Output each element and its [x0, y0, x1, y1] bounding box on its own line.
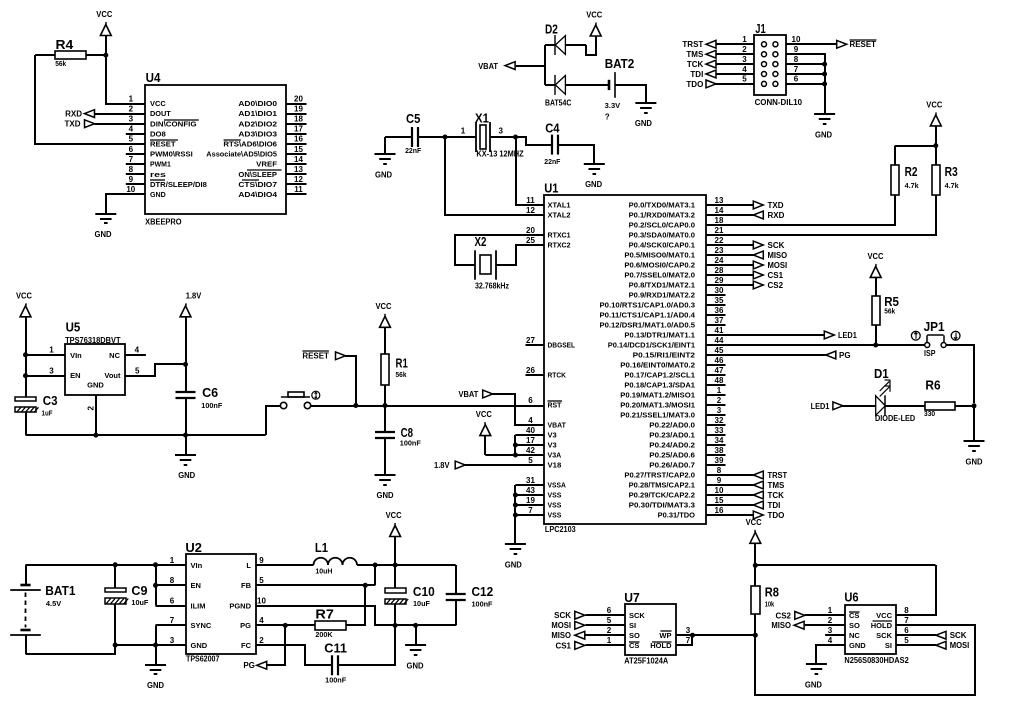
ground — [405, 645, 426, 670]
resistor R7 — [315, 607, 346, 639]
svg-text:TRST: TRST — [768, 471, 788, 480]
wire — [345, 356, 356, 406]
wire — [875, 325, 877, 345]
svg-text:P0.29/TCK/CAP2.2: P0.29/TCK/CAP2.2 — [629, 493, 696, 500]
svg-text:VCC: VCC — [476, 410, 492, 419]
svg-text:TDI: TDI — [768, 501, 781, 510]
svg-text:45: 45 — [715, 346, 724, 355]
signal TCK (U1) — [753, 491, 784, 500]
svg-text:WP: WP — [659, 631, 671, 640]
svg-text:C12: C12 — [472, 584, 494, 599]
svg-text:C9: C9 — [131, 583, 147, 598]
svg-text:GND: GND — [87, 380, 104, 389]
wire — [105, 36, 107, 56]
svg-text:U6: U6 — [844, 590, 858, 605]
svg-text:VREF: VREF — [256, 162, 278, 169]
svg-text:GND: GND — [966, 457, 983, 466]
svg-text:32: 32 — [715, 416, 724, 425]
svg-text:1: 1 — [607, 636, 612, 645]
svg-text:GND: GND — [635, 119, 652, 128]
svg-text:P0.27/TRST/CAP2.0: P0.27/TRST/CAP2.0 — [624, 473, 695, 480]
resistor R5 — [872, 294, 899, 325]
power flag VCC (U2 out) — [386, 511, 402, 537]
wire — [185, 435, 187, 455]
svg-text:5: 5 — [259, 576, 264, 585]
junction — [393, 563, 398, 568]
svg-text:4: 4 — [129, 125, 134, 134]
wire — [706, 334, 825, 336]
svg-text:L: L — [246, 561, 251, 570]
svg-text:EN: EN — [70, 371, 80, 380]
wire — [394, 537, 396, 566]
svg-text:P0.6/MOSI0/CAP0.2: P0.6/MOSI0/CAP0.2 — [624, 263, 695, 270]
svg-text:EN: EN — [191, 581, 201, 590]
wire — [706, 214, 754, 216]
svg-text:56k: 56k — [396, 372, 407, 379]
svg-text:X2: X2 — [475, 234, 487, 249]
svg-text:SCK: SCK — [629, 611, 645, 620]
svg-text:R3: R3 — [945, 164, 958, 179]
svg-text:CS2: CS2 — [775, 611, 791, 620]
svg-text:VIn: VIn — [70, 351, 82, 360]
svg-text:FC: FC — [241, 641, 252, 650]
svg-text:9: 9 — [794, 45, 799, 54]
signal TRST (J1 pin 1) — [682, 40, 716, 49]
svg-text:9: 9 — [129, 175, 134, 184]
svg-text:DIN\CONFIG: DIN\CONFIG — [150, 121, 197, 128]
svg-text:U4: U4 — [146, 70, 161, 85]
svg-text:48: 48 — [715, 376, 724, 385]
wire — [842, 405, 876, 407]
switching regulator U2 TPS62007 — [170, 540, 267, 663]
svg-text:AD1\DIO1: AD1\DIO1 — [238, 111, 277, 118]
svg-text:18: 18 — [715, 216, 724, 225]
svg-text:C5: C5 — [406, 111, 420, 126]
svg-text:6: 6 — [528, 396, 533, 405]
pin number — [794, 55, 799, 64]
svg-text:SCK: SCK — [554, 611, 571, 620]
svg-text:20: 20 — [526, 226, 535, 235]
wire — [515, 434, 543, 436]
wire — [754, 565, 756, 585]
wire (VCC rail) — [755, 564, 935, 566]
wire — [786, 83, 825, 85]
signal PG (U1) — [826, 351, 851, 360]
wire — [415, 625, 417, 645]
signal TDO (J1 pin 5) — [686, 80, 716, 89]
wire — [35, 55, 145, 144]
svg-text:AD4\DIO4: AD4\DIO4 — [238, 192, 277, 199]
wire (HOLD loop) — [755, 625, 975, 695]
junction — [822, 62, 827, 67]
wire — [565, 84, 609, 86]
wire — [706, 204, 754, 206]
svg-text:10uH: 10uH — [315, 569, 332, 576]
pin number — [742, 75, 747, 84]
svg-text:TPS62007: TPS62007 — [186, 654, 220, 663]
svg-text:8: 8 — [129, 165, 134, 174]
svg-text:DOUT: DOUT — [150, 111, 172, 118]
svg-text:RTXC2: RTXC2 — [548, 243, 571, 250]
svg-text:U7: U7 — [624, 590, 640, 605]
resistor R2 — [891, 164, 919, 195]
svg-text:10k: 10k — [765, 601, 775, 608]
svg-text:TDO: TDO — [768, 511, 785, 520]
svg-text:17: 17 — [526, 436, 535, 445]
svg-text:1uF: 1uF — [42, 410, 54, 417]
svg-text:8: 8 — [170, 576, 175, 585]
ground — [175, 455, 196, 480]
capacitor C3 — [15, 393, 58, 417]
svg-text:3: 3 — [717, 406, 722, 415]
svg-text:1: 1 — [742, 35, 747, 44]
wire (bottom rail) — [26, 645, 115, 654]
signal TDI (J1 pin 4) — [690, 70, 716, 79]
svg-text:GND: GND — [585, 180, 602, 189]
junction — [513, 135, 518, 140]
svg-text:VSS: VSS — [548, 513, 562, 520]
wire — [676, 635, 692, 645]
svg-text:PWM0\RSSI: PWM0\RSSI — [150, 152, 193, 159]
svg-text:XTAL1: XTAL1 — [548, 203, 571, 210]
ground — [375, 475, 396, 500]
svg-text:4: 4 — [828, 636, 833, 645]
svg-text:AD2\DIO2: AD2\DIO2 — [238, 121, 277, 128]
svg-text:4.5V: 4.5V — [46, 601, 62, 608]
svg-text:5: 5 — [742, 75, 747, 84]
svg-text:VCC: VCC — [868, 252, 884, 261]
signal MISO (U7) — [551, 631, 584, 640]
svg-text:17: 17 — [294, 125, 303, 134]
wire — [586, 644, 626, 646]
svg-text:3: 3 — [129, 115, 134, 124]
svg-text:21: 21 — [715, 226, 724, 235]
wire — [185, 398, 187, 435]
junction — [23, 373, 28, 378]
svg-text:P0.3/SDA0/MAT0.0: P0.3/SDA0/MAT0.0 — [629, 233, 696, 240]
svg-text:D2: D2 — [545, 22, 558, 37]
svg-text:SCK: SCK — [768, 241, 785, 250]
wire — [754, 614, 756, 635]
wire — [455, 565, 457, 594]
svg-text:GND: GND — [178, 471, 195, 480]
svg-text:4: 4 — [135, 345, 140, 354]
svg-text:LED1: LED1 — [838, 331, 857, 340]
wire — [558, 145, 594, 164]
wire — [156, 624, 187, 626]
svg-text:4.7k: 4.7k — [945, 183, 959, 190]
wire — [455, 600, 457, 626]
svg-text:8: 8 — [904, 606, 909, 615]
svg-text:6: 6 — [170, 596, 175, 605]
svg-text:41: 41 — [715, 326, 724, 335]
wire — [715, 73, 754, 75]
wire — [875, 277, 877, 295]
junction — [513, 493, 518, 498]
svg-text:RESET: RESET — [850, 40, 877, 49]
capacitor C6 — [176, 385, 224, 410]
junction — [153, 562, 158, 567]
svg-text:7: 7 — [129, 155, 134, 164]
wire — [805, 624, 845, 626]
svg-text:NC: NC — [849, 631, 860, 640]
svg-text:RST: RST — [548, 403, 563, 410]
diode D2 upper half — [555, 35, 565, 55]
svg-text:VSS: VSS — [548, 493, 562, 500]
svg-text:V18: V18 — [548, 463, 562, 470]
pin number — [742, 55, 747, 64]
svg-text:TPS76318DBVT: TPS76318DBVT — [65, 336, 120, 345]
wire — [615, 85, 646, 103]
svg-text:VCC: VCC — [586, 11, 602, 20]
wire — [338, 625, 395, 665]
wire (RTXC1) — [455, 235, 544, 265]
svg-text:PG: PG — [839, 351, 851, 360]
pin number — [794, 45, 799, 54]
svg-text:P0.1/RXD0/MAT3.2: P0.1/RXD0/MAT3.2 — [629, 213, 696, 220]
resistor R6 — [924, 378, 955, 419]
svg-text:14: 14 — [294, 155, 303, 164]
svg-text:4: 4 — [259, 616, 264, 625]
svg-text:15: 15 — [715, 496, 724, 505]
svg-text:38: 38 — [715, 446, 724, 455]
wire — [394, 604, 396, 625]
svg-text:VBAT: VBAT — [548, 423, 567, 430]
svg-text:RESET: RESET — [302, 351, 329, 360]
svg-text:P0.25/AD0.6: P0.25/AD0.6 — [649, 453, 695, 460]
wire — [715, 53, 754, 55]
wire — [805, 614, 845, 616]
wire (SYNC tie) — [155, 625, 157, 645]
svg-text:8: 8 — [717, 466, 722, 475]
capacitor C4 — [544, 121, 561, 166]
pin number — [742, 35, 747, 44]
signal TCK (J1 pin 3) — [687, 60, 716, 69]
svg-text:19: 19 — [294, 104, 303, 113]
svg-text:P0.5/MISO0/MAT0.1: P0.5/MISO0/MAT0.1 — [624, 253, 695, 260]
wire — [156, 605, 187, 607]
svg-text:P0.20/MAT1.3/MOSI1: P0.20/MAT1.3/MOSI1 — [620, 403, 695, 410]
svg-text:10: 10 — [126, 185, 135, 194]
svg-text:TXD: TXD — [65, 120, 81, 129]
wire — [490, 136, 516, 138]
svg-text:P0.15/RI1/EINT2: P0.15/RI1/EINT2 — [633, 353, 695, 360]
wire — [35, 54, 55, 56]
svg-text:R8: R8 — [765, 584, 779, 599]
svg-text:P0.16/EINT0/MAT0.2: P0.16/EINT0/MAT0.2 — [620, 363, 695, 370]
wire — [155, 645, 157, 665]
svg-text:7: 7 — [904, 616, 909, 625]
svg-text:100nF: 100nF — [400, 441, 422, 448]
wire — [106, 55, 145, 104]
wire — [394, 565, 396, 588]
wire — [706, 494, 754, 496]
svg-text:5: 5 — [129, 135, 134, 144]
wire — [492, 394, 544, 425]
svg-text:RTXC1: RTXC1 — [548, 233, 571, 240]
wire (Vout rail) — [357, 564, 456, 566]
junction — [933, 143, 938, 148]
svg-text:D1: D1 — [874, 366, 889, 381]
resistor R4 — [55, 37, 86, 68]
wire — [516, 65, 545, 67]
svg-text:Vout: Vout — [104, 371, 121, 380]
svg-text:39: 39 — [715, 456, 724, 465]
svg-text:6: 6 — [607, 606, 612, 615]
svg-text:16: 16 — [294, 135, 303, 144]
svg-text:TCK: TCK — [687, 60, 704, 69]
pin 3 stub (NC) — [825, 634, 845, 636]
wire (RTXC2) — [496, 245, 544, 265]
svg-text:CONN-DIL10: CONN-DIL10 — [755, 98, 803, 107]
svg-text:5: 5 — [135, 367, 140, 376]
svg-text:PWM1: PWM1 — [150, 162, 171, 169]
svg-text:PGND: PGND — [229, 601, 251, 610]
wire — [384, 137, 386, 154]
pin number — [49, 345, 54, 354]
svg-text:U1: U1 — [544, 181, 558, 196]
svg-text:23: 23 — [715, 246, 724, 255]
svg-text:MISO: MISO — [551, 631, 571, 640]
junction — [513, 513, 518, 518]
svg-text:SO: SO — [629, 631, 640, 640]
pin 3 label — [498, 127, 503, 136]
signal VBAT — [478, 62, 515, 71]
pin number — [135, 367, 140, 376]
svg-text:6: 6 — [794, 75, 799, 84]
pin number — [742, 45, 747, 54]
connector J1 CONN-DIL10 — [754, 21, 803, 107]
power flag VCC (XBee pull-up) — [96, 10, 112, 36]
power flag VCC (I2C pull-ups) — [926, 100, 942, 126]
wire — [706, 244, 754, 246]
capacitor C10 — [385, 584, 435, 608]
crystal X2 — [475, 234, 510, 290]
signal TXD — [65, 120, 95, 129]
junction — [753, 563, 758, 568]
svg-text:10: 10 — [257, 596, 266, 605]
svg-text:R2: R2 — [905, 164, 918, 179]
wire (SCL net) — [706, 195, 895, 225]
svg-text:7: 7 — [686, 636, 691, 645]
signal TMS (J1 pin 2) — [686, 50, 716, 59]
wire — [106, 194, 145, 214]
wire — [515, 454, 543, 456]
svg-text:SO: SO — [849, 621, 860, 630]
wire — [384, 438, 386, 475]
svg-text:6: 6 — [129, 145, 134, 154]
wire — [384, 406, 386, 433]
svg-text:3: 3 — [170, 636, 175, 645]
svg-text:31: 31 — [526, 476, 535, 485]
svg-text:P0.23/AD0.1: P0.23/AD0.1 — [649, 433, 695, 440]
svg-text:9: 9 — [259, 556, 264, 565]
svg-text:U2: U2 — [185, 540, 202, 555]
diode D2 lower half — [555, 75, 565, 95]
svg-text:5: 5 — [904, 636, 909, 645]
svg-text:MOSI: MOSI — [768, 261, 788, 270]
svg-text:C3: C3 — [43, 393, 58, 408]
wire — [515, 484, 543, 486]
svg-text:DTR/SLEEP/DI8: DTR/SLEEP/DI8 — [150, 182, 207, 189]
wire — [894, 146, 896, 166]
svg-text:34: 34 — [715, 436, 724, 445]
svg-text:2: 2 — [717, 396, 722, 405]
svg-text:1: 1 — [828, 606, 833, 615]
capacitor C11 — [324, 640, 347, 684]
wire — [955, 405, 974, 407]
svg-text:TRST: TRST — [682, 40, 703, 49]
svg-text:8: 8 — [794, 55, 799, 64]
svg-text:VCC: VCC — [746, 518, 762, 527]
regulator U5 TPS76318DBVT — [65, 320, 125, 396]
ground — [635, 103, 657, 128]
svg-text:P0.8/TXD1/MAT2.1: P0.8/TXD1/MAT2.1 — [629, 283, 696, 290]
svg-text:1.8V: 1.8V — [186, 291, 202, 300]
pin 1 label — [461, 127, 466, 136]
svg-text:P0.24/AD0.2: P0.24/AD0.2 — [649, 443, 695, 450]
svg-text:10: 10 — [792, 35, 801, 44]
svg-text:SCK: SCK — [950, 631, 967, 640]
wire (SDA net) — [706, 195, 936, 235]
svg-text:P0.13/DTR1/MAT1.1: P0.13/DTR1/MAT1.1 — [624, 333, 695, 340]
svg-text:XTAL2: XTAL2 — [548, 213, 571, 220]
signal TRST (U1) — [753, 471, 787, 480]
svg-text:VCC: VCC — [16, 291, 32, 300]
svg-text:VBAT: VBAT — [478, 62, 498, 71]
wire — [896, 634, 936, 636]
svg-text:33: 33 — [715, 426, 724, 435]
pin number — [49, 367, 54, 376]
pin number — [794, 75, 799, 84]
junction — [393, 623, 398, 628]
power flag 1.8V — [180, 291, 202, 317]
wire — [565, 44, 586, 46]
wire — [514, 485, 516, 544]
wire (Vout) — [125, 364, 186, 376]
svg-text:MISO: MISO — [771, 621, 791, 630]
wire (FB) — [256, 584, 376, 586]
capacitor C9 — [105, 583, 149, 607]
svg-text:AD0\DIO0: AD0\DIO0 — [238, 101, 277, 108]
svg-text:1: 1 — [170, 556, 175, 565]
signal MISO (U1) — [753, 251, 787, 260]
power flag VCC (U5 input) — [16, 291, 32, 317]
wire (U5 GND pin) — [95, 395, 97, 435]
wire — [706, 354, 826, 356]
svg-text:32.768kHz: 32.768kHz — [475, 281, 509, 290]
svg-text:P0.17/CAP1.2/SCL1: P0.17/CAP1.2/SCL1 — [624, 373, 695, 380]
svg-text:GND: GND — [377, 491, 394, 500]
svg-text:CS2: CS2 — [768, 281, 784, 290]
wire — [545, 44, 555, 46]
svg-text:RXD: RXD — [768, 211, 785, 220]
LED D1 — [874, 366, 915, 423]
wire (gnd rail) — [26, 434, 266, 436]
power flag VCC (U1 V3) — [476, 410, 492, 455]
junction — [513, 503, 518, 508]
svg-text:P0.9/RXD1/MAT2.2: P0.9/RXD1/MAT2.2 — [629, 293, 696, 300]
svg-text:AT25F1024A: AT25F1024A — [624, 656, 668, 665]
svg-text:24: 24 — [715, 256, 724, 265]
signal CS1 (U1) — [753, 271, 783, 280]
ground — [95, 214, 117, 239]
svg-text:VSS: VSS — [548, 503, 562, 510]
svg-text:SI: SI — [885, 641, 892, 650]
ground — [584, 164, 605, 189]
junction — [873, 343, 878, 348]
svg-text:RXD: RXD — [65, 109, 82, 118]
